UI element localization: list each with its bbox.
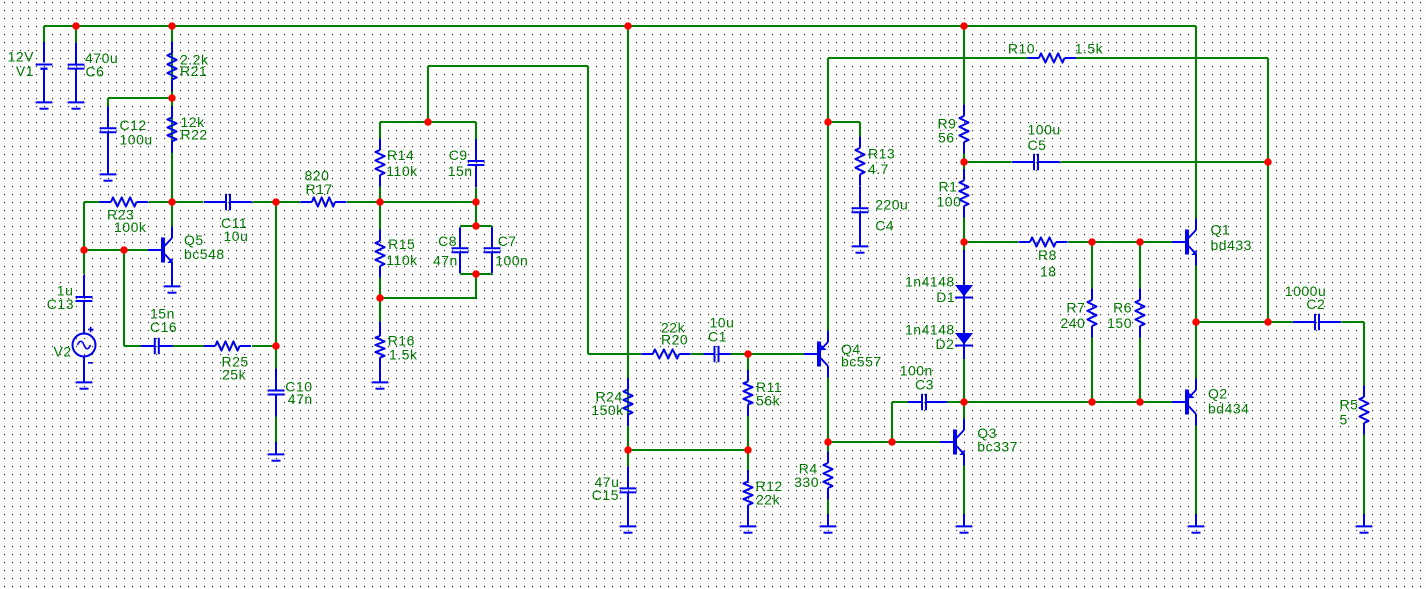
svg-text:D2: D2	[936, 336, 955, 352]
svg-text:R5: R5	[1340, 397, 1359, 413]
svg-text:C7: C7	[498, 233, 517, 249]
svg-text:R1: R1	[939, 178, 958, 194]
svg-text:240: 240	[1060, 315, 1085, 331]
svg-text:100u: 100u	[1028, 122, 1061, 138]
svg-text:47n: 47n	[433, 253, 458, 269]
svg-text:R10: R10	[1008, 40, 1035, 56]
svg-text:Q2: Q2	[1208, 386, 1228, 402]
svg-text:100: 100	[937, 194, 962, 210]
svg-text:V2: V2	[54, 344, 72, 360]
svg-text:C5: C5	[1028, 137, 1047, 153]
svg-text:bd433: bd433	[1211, 237, 1252, 253]
svg-text:bc337: bc337	[977, 439, 1018, 455]
svg-text:15n: 15n	[448, 163, 473, 179]
svg-text:bc548: bc548	[184, 246, 225, 262]
svg-text:100k: 100k	[114, 219, 147, 235]
svg-text:bd434: bd434	[1208, 401, 1249, 417]
svg-text:56k: 56k	[756, 392, 781, 408]
svg-text:V1: V1	[16, 63, 34, 79]
svg-text:R17: R17	[306, 181, 333, 197]
svg-text:110k: 110k	[386, 163, 418, 179]
svg-text:R8: R8	[1038, 247, 1057, 263]
svg-text:C3: C3	[915, 377, 934, 393]
svg-text:C8: C8	[438, 233, 457, 249]
svg-text:110k: 110k	[386, 252, 418, 268]
svg-text:R6: R6	[1113, 299, 1132, 315]
svg-text:Q1: Q1	[1211, 221, 1231, 237]
svg-text:220u: 220u	[875, 197, 908, 213]
svg-text:R22: R22	[181, 127, 208, 143]
svg-text:1n4148: 1n4148	[905, 274, 955, 290]
svg-text:1.5k: 1.5k	[1075, 40, 1104, 56]
svg-text:150: 150	[1107, 315, 1132, 331]
svg-text:C1: C1	[708, 328, 727, 344]
svg-text:100u: 100u	[120, 131, 153, 147]
svg-text:100n: 100n	[495, 253, 528, 269]
svg-text:R13: R13	[868, 146, 895, 162]
svg-text:C15: C15	[592, 487, 619, 503]
svg-text:25k: 25k	[222, 367, 247, 383]
svg-text:R14: R14	[387, 147, 414, 163]
svg-text:C9: C9	[449, 147, 468, 163]
svg-text:330: 330	[794, 474, 819, 490]
svg-text:4.7: 4.7	[868, 161, 889, 177]
svg-text:5: 5	[1340, 411, 1348, 427]
svg-text:C2: C2	[1306, 296, 1325, 312]
svg-text:R21: R21	[180, 63, 207, 79]
svg-text:C6: C6	[86, 64, 105, 80]
svg-text:56: 56	[938, 130, 955, 146]
svg-text:1.5k: 1.5k	[389, 347, 418, 363]
svg-text:R7: R7	[1066, 299, 1085, 315]
svg-text:C4: C4	[875, 217, 894, 233]
svg-text:150k: 150k	[591, 402, 624, 418]
svg-text:47n: 47n	[288, 391, 313, 407]
svg-text:D1: D1	[936, 289, 955, 305]
svg-text:10u: 10u	[224, 228, 249, 244]
svg-text:22k: 22k	[756, 492, 781, 508]
svg-text:C13: C13	[47, 296, 74, 312]
svg-text:R15: R15	[388, 236, 415, 252]
svg-text:18: 18	[1040, 263, 1057, 279]
svg-text:bc557: bc557	[841, 354, 882, 370]
svg-text:R20: R20	[661, 331, 688, 347]
svg-text:C16: C16	[150, 319, 177, 335]
